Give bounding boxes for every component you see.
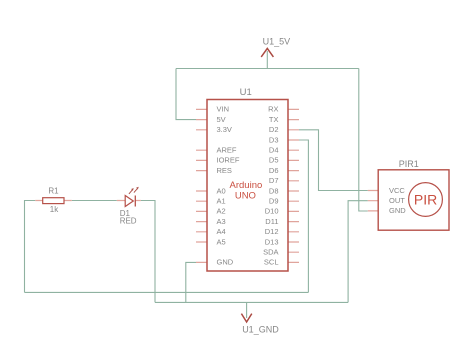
PIR1 pin labels (389, 186, 406, 215)
wire D1 down to rail B (141, 201, 155, 303)
svg-text:RX: RX (268, 105, 278, 114)
svg-text:PIR: PIR (414, 192, 437, 208)
svg-text:UNO: UNO (235, 190, 256, 201)
svg-text:D10: D10 (265, 207, 279, 216)
LED D1 leads (117, 200, 141, 202)
svg-text:U1_GND: U1_GND (242, 325, 279, 335)
resistor R1 body (43, 198, 64, 204)
svg-text:PIR1: PIR1 (399, 159, 419, 169)
svg-text:R1: R1 (48, 187, 59, 196)
svg-text:A3: A3 (217, 217, 226, 226)
wire U1 GND pin to rail B (186, 262, 196, 302)
wire rail A horizontal (25, 291, 309, 293)
svg-text:A4: A4 (217, 227, 226, 236)
svg-text:U1_5V: U1_5V (263, 36, 291, 46)
svg-text:GND: GND (217, 258, 234, 267)
wire U1 D3 down (299, 140, 308, 292)
wire U1_5V arrow stem (266, 51, 268, 69)
svg-text:RED: RED (120, 216, 137, 225)
wire R1 to D1 (72, 200, 117, 202)
resistor R1 (35, 187, 72, 215)
wire rail B horizontal GND (155, 301, 348, 303)
U1 left pin stubs (196, 109, 207, 262)
svg-text:5V: 5V (217, 115, 226, 124)
svg-text:3.3V: 3.3V (217, 125, 232, 134)
LED D1 (117, 187, 141, 226)
svg-text:D6: D6 (269, 166, 279, 175)
svg-text:TX: TX (269, 115, 279, 124)
power symbol U1_5V (261, 36, 290, 57)
PIR1 pin stubs (368, 191, 378, 211)
U1 body box (207, 100, 288, 272)
wire 5V rail to U1 5V pin (176, 69, 196, 120)
svg-text:VCC: VCC (389, 186, 405, 195)
ground symbol U1_GND (241, 314, 279, 335)
wire U1_GND arrow stem (246, 302, 248, 318)
svg-text:A5: A5 (217, 237, 226, 246)
svg-text:D9: D9 (269, 197, 279, 206)
wire rail B up to PIR1 OUT (348, 201, 368, 303)
U1 right pin labels (263, 105, 278, 267)
svg-text:IOREF: IOREF (217, 156, 240, 165)
svg-text:1k: 1k (50, 205, 59, 214)
svg-text:OUT: OUT (389, 196, 405, 205)
svg-text:SDA: SDA (263, 248, 278, 257)
LED D1 emission arrows (129, 187, 139, 194)
svg-text:D7: D7 (269, 176, 279, 185)
PIR1 body box (378, 170, 449, 230)
wire top 5V rail (176, 68, 359, 70)
svg-text:D11: D11 (265, 217, 278, 226)
svg-text:D12: D12 (265, 227, 279, 236)
op board U1 Arduino UNO (196, 87, 299, 271)
svg-text:RES: RES (217, 166, 232, 175)
svg-text:SCL: SCL (264, 258, 279, 267)
svg-text:VIN: VIN (217, 105, 230, 114)
wire 5V rail down to PIR1 GND pin (359, 69, 368, 212)
resistor R1 leads (35, 200, 72, 202)
svg-text:D2: D2 (269, 125, 279, 134)
svg-text:A2: A2 (217, 207, 226, 216)
svg-text:D8: D8 (269, 186, 279, 195)
svg-text:D3: D3 (269, 135, 279, 144)
PIR1 circle (409, 183, 443, 217)
wire left riser to R1 (25, 201, 36, 293)
svg-text:GND: GND (389, 206, 406, 215)
svg-text:D5: D5 (269, 156, 279, 165)
svg-text:A0: A0 (217, 186, 226, 195)
LED D1 cathode bar (134, 196, 136, 207)
svg-text:D13: D13 (265, 237, 279, 246)
wire U1 D2 to PIR1 VCC (299, 130, 368, 191)
svg-text:AREF: AREF (217, 146, 237, 155)
U1 left pin labels (217, 105, 240, 267)
svg-text:D4: D4 (269, 146, 279, 155)
sensor PIR1 (368, 159, 449, 230)
U1 right pin stubs (288, 109, 299, 262)
svg-text:U1: U1 (240, 87, 252, 98)
LED D1 triangle (125, 196, 133, 207)
svg-text:A1: A1 (217, 197, 226, 206)
